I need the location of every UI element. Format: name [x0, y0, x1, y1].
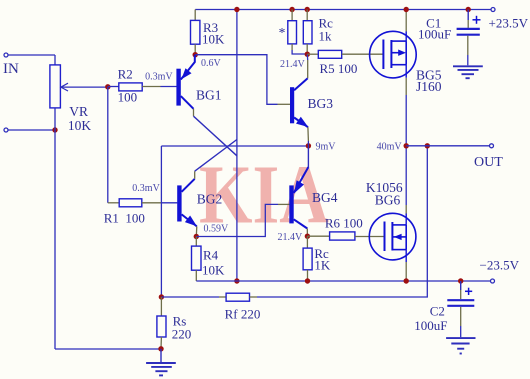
- wire: [257, 146, 427, 297]
- wire: [54, 108, 56, 349]
- node Rc2 rail: [305, 278, 310, 283]
- BG2 emitter lead: [182, 214, 197, 226]
- svg-text:100: 100: [118, 90, 138, 105]
- node Rc-a top: [289, 7, 294, 12]
- svg-text:BG2: BG2: [197, 192, 223, 207]
- pin BG2 collector jog: [194, 171, 196, 179]
- svg-text:BG4: BG4: [312, 190, 338, 205]
- BG4 emitter arrow: [294, 180, 304, 193]
- BG3 collector lead: [294, 78, 308, 90]
- C2 plus sign: [465, 290, 472, 292]
- pin Rs bottom: [160, 337, 162, 349]
- capacitor C2: [447, 299, 474, 301]
- wire: [161, 296, 219, 298]
- svg-text:0.59V: 0.59V: [204, 224, 230, 235]
- ground under C1: [453, 65, 483, 67]
- pin R1 left: [108, 202, 119, 204]
- pin BG4 base: [278, 203, 290, 205]
- pin C2 bottom: [460, 307, 462, 326]
- svg-text:40mV: 40mV: [377, 142, 403, 153]
- BG1 emitter arrow: [181, 68, 191, 79]
- svg-text:10K: 10K: [202, 263, 225, 278]
- wiper arrow: [61, 83, 68, 91]
- pin BG5 drain: [405, 32, 407, 42]
- pin BG6 source: [405, 250, 407, 262]
- svg-text:IN: IN: [3, 61, 19, 77]
- node C2 rail: [458, 278, 463, 283]
- resistor R4: [192, 246, 202, 270]
- pin C2 top: [460, 281, 462, 290]
- pin R2 right: [142, 86, 160, 88]
- ground under C2: [446, 337, 475, 339]
- BG6 body arrow: [394, 234, 402, 240]
- wire: [460, 326, 462, 337]
- wire -23.5V rail: [196, 280, 490, 282]
- node IN- junction: [52, 127, 57, 132]
- svg-text:100uF: 100uF: [414, 318, 447, 333]
- BG3 emitter arrow: [296, 117, 308, 127]
- node bottom rail junction: [234, 278, 239, 283]
- wire +23.5V rail: [195, 9, 491, 11]
- BG6 source stub: [392, 249, 406, 251]
- pin R4 top: [195, 237, 197, 247]
- wire BG2 collector diagonal: [195, 140, 237, 172]
- svg-text:R4: R4: [203, 248, 219, 263]
- BG5 gate bar: [382, 40, 384, 70]
- svg-text:10K: 10K: [202, 31, 225, 46]
- pin Rc2 bottom: [307, 270, 309, 281]
- BG5 channel bar: [390, 40, 392, 68]
- svg-text:R2: R2: [118, 67, 133, 82]
- wire BG4 base link: [196, 204, 278, 236]
- node 21.4V upper: [305, 52, 310, 57]
- pin R5 left: [307, 53, 318, 55]
- pin BG1 collector jog: [193, 109, 195, 116]
- pin BG3 collector: [307, 60, 309, 78]
- wire: [8, 54, 55, 56]
- pin R1 right: [142, 202, 161, 204]
- svg-text:C2: C2: [430, 304, 445, 319]
- node ground junction: [158, 346, 163, 351]
- BG6 body stub: [392, 236, 406, 238]
- svg-text:BG3: BG3: [308, 96, 334, 111]
- wire: [467, 55, 469, 65]
- wiper wire: [62, 86, 108, 88]
- wire: [161, 86, 177, 88]
- transistor BG2 base bar: [177, 185, 181, 221]
- pin Rc-b top: [306, 10, 308, 21]
- BG6 channel bar: [391, 222, 393, 251]
- pin BG4 emitter: [307, 146, 309, 167]
- svg-text:R5 100: R5 100: [320, 61, 358, 76]
- BG5 drain stub: [391, 40, 406, 42]
- C1 plus sign: [473, 19, 481, 21]
- node OUT feedback junction: [425, 143, 430, 148]
- terminal OUT: [490, 144, 494, 148]
- svg-text:Rf 220: Rf 220: [225, 307, 261, 322]
- pin Rs top: [160, 297, 162, 316]
- wire: [55, 348, 161, 350]
- BG5 right bar: [405, 41, 407, 65]
- terminal IN-: [4, 128, 8, 132]
- pin R3 bottom: [194, 44, 196, 55]
- resistor Rf: [226, 293, 249, 301]
- resistor Rc-a: [288, 21, 297, 44]
- wire: [306, 54, 308, 60]
- node Rs Rf junction: [159, 294, 164, 299]
- resistor R5: [318, 50, 341, 58]
- BG3 emitter lead: [294, 118, 308, 128]
- wire: [292, 50, 307, 54]
- BG1 collector lead: [181, 96, 194, 109]
- transistor BG4 base bar: [289, 185, 293, 223]
- pin BG6 drain: [405, 214, 407, 225]
- svg-text:R1 100: R1 100: [104, 211, 145, 226]
- node top rail junction: [234, 7, 239, 12]
- svg-text:100uF: 100uF: [418, 26, 451, 41]
- wire: [406, 145, 489, 147]
- wire: [54, 55, 56, 65]
- node C1 rail: [466, 7, 471, 12]
- pin BG2 emitter: [195, 226, 198, 236]
- wire: [107, 87, 109, 203]
- svg-text:VR: VR: [69, 104, 88, 119]
- node 0.59V: [194, 234, 199, 239]
- terminal +23.5V: [491, 8, 495, 12]
- node 0.6V: [193, 52, 198, 57]
- svg-text:+23.5V: +23.5V: [489, 16, 529, 31]
- pin R3 top: [194, 10, 196, 21]
- pin BG3 base: [278, 103, 291, 105]
- BG1 emitter lead: [181, 55, 195, 80]
- resistor Rs: [157, 316, 166, 337]
- BG5 source stub: [391, 64, 406, 66]
- BG2 emitter arrow: [185, 216, 197, 227]
- svg-text:1K: 1K: [314, 258, 331, 273]
- pin R6 right / gate wire: [355, 236, 385, 238]
- wire: [307, 141, 309, 146]
- svg-text:21.4V: 21.4V: [278, 232, 304, 243]
- wire feedback vertical: [160, 146, 162, 297]
- node Rc-b top: [305, 7, 310, 12]
- wire BG1 collector diagonal: [194, 116, 237, 156]
- pin R4 bottom: [195, 270, 197, 281]
- terminal IN+: [4, 53, 8, 57]
- resistor R3: [191, 20, 200, 44]
- pin R6 left: [307, 235, 329, 237]
- BG6 drain stub: [392, 224, 406, 226]
- ground: [160, 349, 162, 362]
- resistor R1: [119, 199, 142, 207]
- BG6 right bar: [405, 225, 407, 250]
- BG5 body arrow: [398, 50, 406, 56]
- pin C1 top: [467, 10, 469, 21]
- svg-text:OUT: OUT: [474, 155, 503, 170]
- BG5 body stub: [391, 52, 399, 54]
- svg-text:220: 220: [172, 327, 192, 342]
- pin BG3 emitter: [307, 127, 310, 141]
- wire: [8, 129, 53, 131]
- node 21.4V lower: [305, 234, 310, 239]
- wire: [405, 95, 407, 205]
- node BG5 drain rail: [404, 7, 409, 12]
- pin Rc2 top: [306, 236, 308, 248]
- resistor Rc2: [303, 248, 312, 270]
- pin BG4 collector: [306, 229, 308, 237]
- potentiometer VR: [50, 65, 61, 108]
- wire feedback horizontal: [161, 145, 308, 147]
- svg-text:*: *: [279, 25, 286, 40]
- pin Rf right: [250, 296, 258, 298]
- BG4 collector lead: [294, 219, 308, 228]
- node 40mV: [404, 143, 409, 148]
- pin Rc-a bottom: [291, 44, 293, 50]
- terminal -23.5V: [491, 279, 495, 283]
- svg-text:−23.5V: −23.5V: [480, 258, 520, 273]
- pin C1 bottom: [467, 36, 469, 55]
- svg-text:0.3mV: 0.3mV: [145, 71, 173, 82]
- pin Rc-b bottom: [306, 44, 308, 54]
- mosfet BG6 body: [369, 213, 416, 260]
- transistor BG1 base bar: [176, 69, 180, 106]
- wire: [161, 202, 177, 204]
- wire center vertical: [236, 10, 238, 282]
- BG4 emitter lead: [294, 167, 309, 193]
- resistor R6: [330, 232, 355, 240]
- svg-text:BG1: BG1: [196, 87, 222, 102]
- resistor Rc-b: [303, 21, 312, 44]
- pin Rf left: [219, 296, 226, 298]
- wire: [108, 86, 119, 88]
- svg-text:10K: 10K: [68, 118, 92, 133]
- pin BG5 source: [405, 65, 407, 78]
- svg-text:R6 100: R6 100: [325, 215, 363, 230]
- pin R5 right / gate wire: [342, 53, 384, 55]
- pin Rc-a top: [291, 10, 293, 21]
- capacitor C1: [457, 28, 480, 30]
- resistor R2: [119, 83, 142, 91]
- transistor BG3 base bar: [290, 87, 294, 123]
- mosfet BG5 body: [370, 31, 417, 78]
- svg-text:1k: 1k: [319, 29, 333, 44]
- node 9mV: [306, 143, 311, 148]
- BG2 collector lead: [182, 179, 195, 192]
- svg-text:0.3mV: 0.3mV: [132, 183, 160, 194]
- svg-text:J160: J160: [416, 79, 442, 94]
- BG6 gate bar: [384, 222, 386, 252]
- wire BG3 base link: [195, 55, 277, 105]
- svg-text:0.6V: 0.6V: [201, 58, 222, 69]
- svg-text:21.4V: 21.4V: [280, 59, 306, 70]
- node BG6 rail: [404, 278, 409, 283]
- node wiper junction: [105, 84, 110, 89]
- svg-text:BG6: BG6: [375, 192, 401, 207]
- svg-text:9mV: 9mV: [316, 142, 337, 153]
